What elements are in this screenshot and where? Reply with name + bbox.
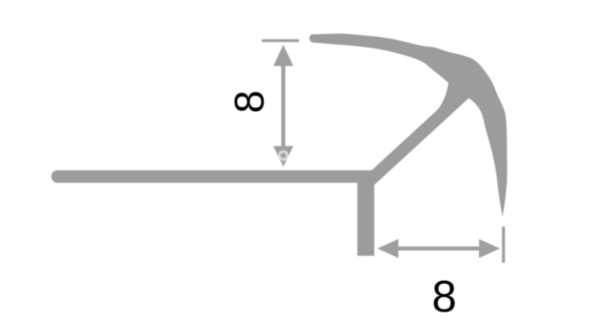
profile curved face: [309, 34, 507, 217]
dimension right tick: [502, 227, 505, 263]
dimension top tick: [262, 39, 299, 42]
vertical dimension arrow: [273, 45, 293, 167]
label 8 (vertical dimension, rotated): [234, 92, 263, 112]
horizontal dimension arrow: [377, 239, 500, 258]
label 8 (horizontal dimension): [434, 281, 455, 313]
profile diagonal strut: [366, 89, 470, 185]
junction fillet: [434, 83, 463, 114]
profile flange and stub: [51, 170, 374, 255]
